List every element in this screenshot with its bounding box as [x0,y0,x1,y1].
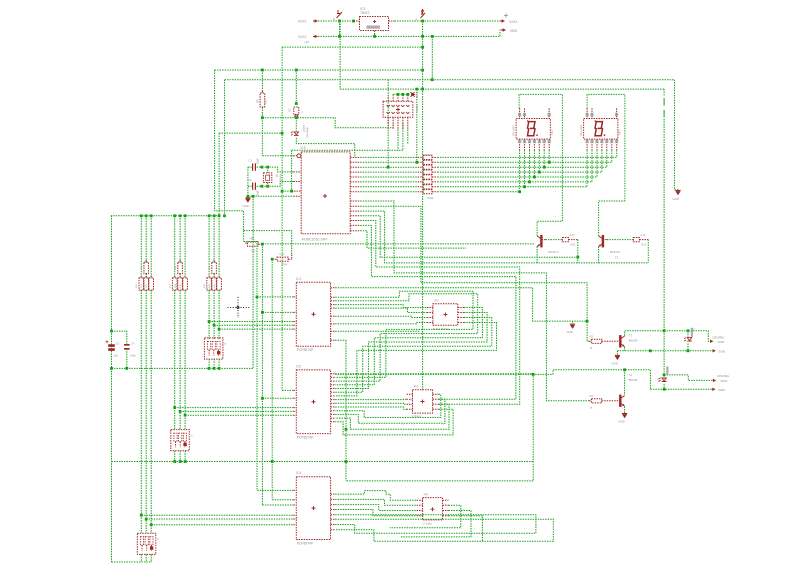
junction Q1 top [266,166,269,169]
junction [431,78,434,81]
wire [174,216,176,278]
LED LED1 [294,132,299,136]
wire relay rail to D4 [663,331,665,375]
junction [406,93,409,96]
resistor R22 lead a [150,276,152,278]
dip switch S1 element 1 [208,341,211,350]
svg-text:IC5: IC5 [301,146,306,150]
junction [421,46,424,49]
svg-text:JP2: JP2 [413,384,418,388]
wire [402,94,404,95]
wire segment line 7 [360,186,417,188]
wire D3 top lead [687,331,689,337]
wire [407,94,409,95]
junction VCC input [338,20,341,23]
junction tap [213,324,216,327]
pin JP3 right [443,515,449,517]
pin IC2 right [331,399,336,401]
pin IC1 left top [293,296,296,298]
wire segment bus 1 [437,156,616,158]
wire gnd rail down x253 [252,196,254,368]
junction bus [173,214,176,217]
pin R24 right lead [291,255,293,259]
wire IC2 p1 to Q2 [335,373,553,375]
resistor R18 lead a [179,260,181,262]
svg-text:0417: 0417 [617,129,621,135]
arrow supply input 2 [313,35,316,37]
pin JP2 left [407,403,413,405]
junction [208,367,211,370]
wire IC1 to JP1 [335,308,427,312]
svg-text:R2: R2 [590,334,594,338]
pin IC2 right [331,391,336,393]
svg-text:GND: GND [567,330,573,334]
pin RN1 r5 right lead [432,176,437,178]
svg-text:0417: 0417 [550,129,554,135]
wire y133 [219,132,282,134]
junction bus [213,214,216,217]
wire [213,274,215,278]
display DIS2 digit [595,122,603,136]
wire S2 signal to SV1 [262,118,393,128]
wire D4 bottom lead [663,384,665,389]
wire tap to IC4 [151,524,293,526]
svg-text:C3: C3 [116,341,120,345]
wire T2 collector to DIS2 [599,201,625,236]
wire tap to IC4 [146,518,293,520]
svg-text:LED1: LED1 [302,125,306,132]
pin IC2 left [293,397,296,399]
pin R2 to Q1 base [602,340,619,342]
resistor R18 lower lead b [179,290,181,292]
wire segment line 5 [360,176,417,178]
wire IC1 to JP1 [335,323,427,324]
wire IC5 to JP2 r2 [360,225,516,399]
pin IC5 XTAL2 [293,181,301,183]
svg-text:4.7k: 4.7k [279,252,285,256]
wire segment bus 5 [437,176,597,178]
pin JP1 right [458,317,464,319]
wire SV1 top bus [393,93,410,95]
wire R9 long signal [262,243,534,245]
display DIS2 [584,119,618,140]
svg-text:R19: R19 [180,283,182,288]
resistor R24 [277,257,288,261]
label DIS1 bottom pin number [538,140,541,143]
wire R11 drop [577,240,579,263]
junction Q1 bottom [266,185,269,188]
resistor R15 lower [212,278,217,290]
wire IC2 to JP2 p3 [335,402,406,405]
label DIS2 top pin number [586,113,589,116]
junction S2 top [295,69,298,72]
pin SV1 top 4 [402,96,404,102]
svg-text:PROG: PROG [415,104,419,112]
junction [532,373,535,376]
wire [184,290,186,430]
pin DIS2 top [586,108,588,118]
pin IC4 right [331,498,336,500]
wire x262 down 3 [261,398,263,505]
svg-text:AT89C2051-24PI: AT89C2051-24PI [302,237,328,241]
svg-text:BC547C: BC547C [549,250,559,254]
io expander IC4 [296,477,330,540]
svg-text:1k: 1k [590,405,594,409]
pin R9 left [244,241,248,244]
resistor R8 [260,93,265,107]
wire rail y47 [282,46,423,48]
junction [184,460,187,463]
pin JP1 right [458,312,464,314]
dip switch S1 element 2 [212,341,215,350]
pin RN1 r1 left lead [418,156,424,158]
wire [397,94,399,95]
wire DIS2 riser 3 [596,150,598,177]
wire segment line 8 [360,191,417,193]
wire DIS1 riser 3 [529,150,531,182]
pin JP1 left [427,307,433,309]
svg-text:0000: 0000 [719,350,726,354]
wire R8 top lead [261,70,263,93]
wire [179,290,181,430]
svg-text:4.7k: 4.7k [570,233,576,237]
wire to clock pin [262,155,293,157]
pin RN1 r5 left lead [418,176,424,178]
junction bus feed [223,214,226,217]
wire [150,290,152,533]
pin DIS1 bottom 2 [524,139,526,150]
pin IC4 right [331,509,336,511]
wire DIS2 riser 4 [601,150,603,172]
pin SV1 inner top 1 [387,105,390,107]
pin RN1 r6 right lead [432,181,437,183]
svg-text:S: S [156,538,160,540]
wire JP3 r2 wrap [390,505,461,528]
junction digit line 1 [415,161,418,164]
svg-text:T4: T4 [629,373,633,377]
junction bus [145,214,148,217]
wire [145,274,147,278]
svg-text:30pF: 30pF [256,158,260,164]
junction R9 out [261,243,264,246]
junction cap branch [110,330,113,333]
pin IC4 left [293,514,296,516]
pin IC4 left [293,518,296,520]
svg-text:S: S [416,18,418,22]
label DIS2 bottom pin number [615,140,618,143]
dip switch S3 element 2 [145,537,148,546]
junction [345,428,348,431]
resistor R20 lead a [140,276,142,278]
wire Q2 collector [624,370,626,395]
junction Q2 collector [623,368,626,371]
pin SV1 inner bottom 2 [392,112,395,114]
pin JP3 left [417,510,423,512]
junction R2 feed [586,320,589,323]
junction [431,35,434,38]
pin IC3 GND [374,31,376,35]
junction [649,349,652,352]
pin DIS2 top [616,108,618,118]
wire S2 bottom [184,451,186,462]
pin DIS2 bottom 1 [586,139,588,150]
pin IC2 right [331,395,336,397]
wire rail down to ground [675,80,679,191]
wire tap to IC1 [214,324,293,326]
wire to IC4 pin [272,499,293,501]
pin RN1 r7 left lead [418,186,424,188]
JP3 center cross [431,507,435,511]
IC4 center cross [312,506,316,510]
ground GND2 [245,197,250,199]
wire IC4 p4 to JP3 [335,510,416,516]
svg-text:R14: R14 [204,283,206,288]
wire segment bus 4 [437,171,602,173]
wire S3 bottom [140,554,142,562]
resistor R9 [248,242,259,246]
wire +5V drop x340 [339,21,341,89]
capacitor C3 (elco) [108,346,115,350]
junction tap [150,523,153,526]
wire segment bus 2 [437,161,611,163]
dip switch S2 [171,430,190,451]
wire to IC4 pin p4 [262,504,293,506]
arrow supply input 1 [313,20,316,22]
pin IC2 right [331,421,336,423]
arrow output 2b [712,388,715,391]
transistor Q1 [619,335,621,347]
wire DIS1 riser 7 [548,150,550,162]
pin IC5 right low p1 [350,200,360,202]
svg-text:T1: T1 [554,256,558,260]
pin DIS1 bottom 6 [543,139,545,150]
pin RN1 r6 left lead [418,181,424,183]
svg-text:C2: C2 [248,178,252,182]
pin IC4 right [331,524,336,526]
junction [261,185,264,188]
wire DIS2 riser 6 [611,150,613,162]
svg-text:22u: 22u [114,353,119,357]
junction IC5 pin [290,190,293,193]
svg-text:S2: S2 [288,108,292,112]
svg-text:IC4: IC4 [296,471,301,475]
junction R8 bottom [261,116,264,119]
wire DIS1 riser 4 [533,150,535,177]
wire output 2b [650,388,713,390]
wire IC4 p2 to JP3 [335,499,416,505]
wire IC4 wrap 2 [335,519,553,541]
wire segment bus 7 [437,186,587,188]
pin JP3 right [443,510,449,512]
junction segment line [538,171,541,174]
wire x224 drop [224,80,226,216]
svg-text:1k: 1k [590,346,594,350]
svg-text:230V/REL: 230V/REL [717,374,730,378]
pin IC1 right [331,307,336,309]
resistor R19 lead a [184,276,186,278]
pin JP3 left [417,515,423,517]
pin IC4 right [331,504,336,506]
pin DIS1 bottom 4 [533,139,535,150]
svg-text:GND: GND [673,197,679,201]
pin IC1 right [331,330,336,332]
transistor T2 [602,235,604,247]
wire [218,216,220,278]
pin R3 to Q2 base [602,400,619,402]
pin IC1 right [331,339,336,341]
wire [213,216,215,262]
wire S2 top lead [295,70,297,104]
pin IC5 P1 clock circle [297,154,301,158]
connector JP3 [423,498,443,520]
wire S1 bottom [218,359,220,368]
wire T2 emitter down [598,247,600,263]
label DIS1 bottom pin number [543,140,546,143]
svg-text:GND: GND [619,420,625,424]
pin IC2 right [331,384,336,386]
pin SV1 inner bottom 5 [406,112,409,114]
pin RN1 r7 right lead [432,186,437,188]
pin IC1 left [293,328,296,330]
wire DIS2 riser 7 [616,150,618,157]
pin IC2 right [331,376,336,378]
wire long vertical x282 [281,47,283,390]
capacitor C4 [124,345,130,349]
label DIS2 bottom pin number [586,140,589,143]
dip switch S1 mark [217,351,220,354]
resistor R20 [139,278,144,290]
wire tap to IC4 [141,514,293,516]
resistor R15 [212,262,217,273]
pin SV1 inner bottom 4 [401,112,404,114]
wire cap gnd leg [247,167,249,196]
junction bus [208,214,211,217]
junction bus tap [271,460,274,463]
pin IC1 left [293,324,296,326]
wire raw supply rail [318,30,504,36]
pin RN1 r2 right lead [432,161,437,163]
svg-text:S: S [223,343,227,345]
junction segment line [533,176,536,179]
display DIS1 dp [536,135,539,136]
ground GND1 [675,190,680,192]
wire segment line 2 [360,161,417,163]
wire XTAL1 to IC5 [262,167,293,172]
io expander IC2 [296,370,330,434]
label DIS1 bottom pin number [528,140,531,143]
pin JP3 left [417,504,423,506]
wire to IC3 input [340,20,354,22]
pin SV1 inner top 3 [397,105,400,107]
resistor R19 lead b [184,290,186,292]
pin RN1 r4 left lead [418,171,424,173]
resistor R21 lower lead a [145,276,147,278]
pin IC4 right [331,518,336,520]
svg-text:JP3: JP3 [423,492,428,496]
pin SV1 inner bottom 3 [397,112,400,114]
wire DIS2 riser 2 [591,150,593,182]
svg-text:PCF8574P: PCF8574P [297,348,314,352]
arrow +5V out [500,20,503,22]
pin IC4 left p2 [293,489,296,491]
junction D4 top [663,374,666,377]
wire [179,274,181,278]
pin IC3 OUT [389,20,395,22]
wire [218,290,220,340]
svg-text:S: S [333,17,335,21]
connector JP1 [433,304,458,326]
wire [174,290,176,430]
wire T1 base feed [360,216,578,257]
transistor T1 [540,235,542,247]
resistor R21 lower lead b [145,290,147,292]
pin IC5 left p4 [292,190,302,192]
junction bus [218,214,221,217]
pin JP3 right [443,504,449,506]
svg-text:4MHz: 4MHz [279,174,283,181]
junction bus [184,214,187,217]
pin DIS1 bottom 3 [529,139,531,150]
svg-text:HD-H103: HD-H103 [512,125,516,136]
junction segment line [518,190,521,193]
resistor R16 lead b [218,290,220,292]
wire R8 bottom lead [261,107,263,118]
pin JP2 left [407,408,413,410]
wire segment bus 8 [437,191,519,193]
wire DIS2 riser 1 [586,150,588,187]
wire IC5 to R2 [360,206,589,341]
wire IC4 p1 to JP3 with hop [335,491,416,501]
pin IC2 right [331,373,336,375]
label DIS2 bottom pin number [610,140,613,143]
pin R9 right [258,243,262,245]
pin SV1 bottom 2 [392,117,394,129]
svg-text:XXXX: XXXX [509,20,518,24]
wire JP2 wrap to IC2 [335,404,449,429]
svg-text:1: 1 [302,110,304,114]
wire C4 bottom [126,349,128,369]
pin DIS1 bottom 1 [519,139,521,150]
wire tap to IC1 [209,321,293,323]
dip switch S1 element 3 [217,341,220,350]
svg-text:BC547C: BC547C [610,250,620,254]
arrow supply out 2 [501,29,504,31]
transistor Q2 [619,395,621,407]
svg-text:CB: CB [251,249,255,253]
pin IC2 left [293,407,296,409]
resistor R17 lead b [174,290,176,292]
wire [213,290,215,340]
pin JP1 right [458,322,464,324]
junction tap [218,328,221,331]
wire crystal top lead [267,167,269,173]
svg-text:E-Ser-Schue: E-Ser-Schue [433,327,450,331]
junction tap [184,414,187,417]
wire [179,216,181,262]
wire [140,290,142,533]
capacitor C1 [253,163,256,170]
junction [295,102,298,105]
voltage regulator IC3 [360,17,389,31]
IC1 center cross [312,312,316,316]
wire IC2 to JP2 p4 [335,407,406,409]
svg-text:OSP: OSP [415,92,419,98]
wire T1 collector to DIS1 [537,221,562,236]
pin IC2 left [293,389,296,391]
pin JP2 left [407,398,413,400]
pin SV1 bottom 3 [397,117,399,129]
pin IC4 left [293,499,296,501]
